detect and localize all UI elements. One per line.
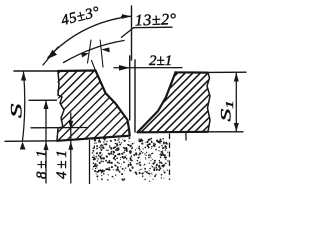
svg-text:S1: S1 [217, 100, 236, 121]
svg-text:8±1: 8±1 [34, 147, 50, 179]
svg-text:S: S [8, 103, 26, 118]
svg-text:4±1: 4±1 [54, 147, 70, 179]
svg-text:13±2°: 13±2° [135, 11, 177, 29]
svg-text:2±1: 2±1 [149, 53, 172, 69]
